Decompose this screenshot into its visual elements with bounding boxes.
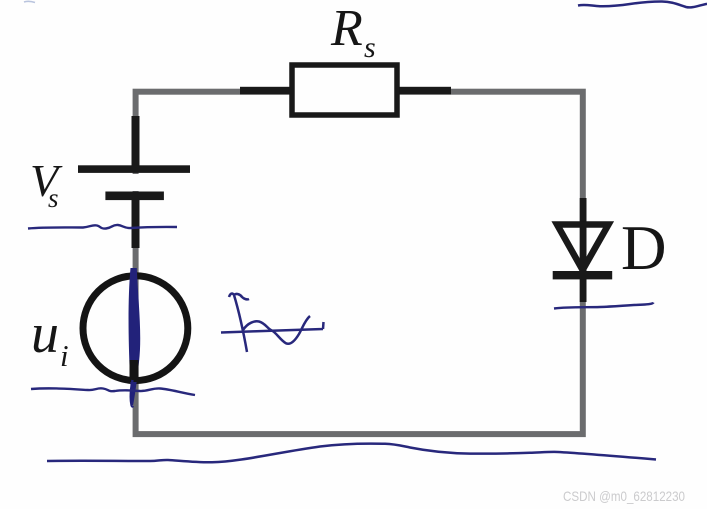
battery Vs top plate — [78, 165, 190, 173]
diode D lead upper black — [580, 198, 587, 226]
svg-text:i: i — [60, 338, 69, 373]
svg-text:u: u — [31, 303, 59, 365]
wire top black segment into resistor — [240, 87, 292, 95]
hand-drawn waveform sketch: vertical axis with arrow — [229, 294, 249, 352]
wire black segment out of resistor — [399, 87, 451, 95]
faint blue mark top-left — [24, 1, 35, 2]
hand-drawn waveform sketch: horizontal axis — [221, 322, 324, 333]
battery lower lead black — [132, 200, 140, 248]
svg-text:s: s — [48, 183, 59, 213]
blue pen tail below circle — [131, 380, 133, 407]
svg-text:s: s — [364, 31, 376, 64]
diode lead through triangle — [580, 222, 587, 302]
battery Vs bottom plate — [105, 192, 163, 201]
resistor Rs — [292, 65, 397, 115]
svg-text:D: D — [621, 213, 667, 283]
diode cathode bar — [553, 271, 613, 279]
long blue wavy line bottom — [47, 444, 656, 463]
wire loop (gray) — [136, 92, 583, 434]
blue squiggle below diode — [554, 303, 654, 309]
black lead inside circle — [130, 360, 139, 382]
hand-drawn waveform sketch: sine wave — [243, 316, 310, 344]
blue squiggle below circle — [31, 388, 195, 395]
source ui circle — [83, 276, 188, 381]
svg-text:R: R — [330, 0, 363, 57]
white gap between battery plates — [127, 174, 144, 191]
svg-text:CSDN @m0_62812230: CSDN @m0_62812230 — [563, 488, 685, 504]
blue pen stroke through circle — [129, 268, 141, 407]
blue squiggle below battery — [28, 225, 177, 229]
diode D triangle — [557, 225, 609, 271]
blue squiggle top right — [578, 1, 707, 7]
wire top-left black segment — [132, 116, 140, 168]
